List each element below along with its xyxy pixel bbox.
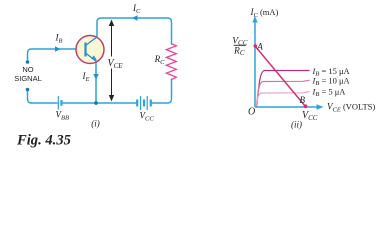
svg-text:IE: IE <box>82 71 90 83</box>
svg-text:(ii): (ii) <box>291 119 302 129</box>
svg-text:SIGNAL: SIGNAL <box>14 74 42 83</box>
svg-text:B: B <box>300 95 306 105</box>
svg-text:IB: IB <box>55 33 63 45</box>
svg-text:VCE: VCE <box>108 58 124 70</box>
svg-text:IC (mA): IC (mA) <box>250 7 279 19</box>
svg-text:A: A <box>256 41 263 51</box>
svg-text:VCC: VCC <box>302 110 318 122</box>
svg-text:NO: NO <box>22 65 33 74</box>
svg-text:O: O <box>248 107 255 118</box>
svg-text:VBB: VBB <box>56 110 69 122</box>
svg-text:(i): (i) <box>91 119 100 129</box>
svg-text:IB = 5 μA: IB = 5 μA <box>312 87 347 99</box>
svg-text:RC: RC <box>233 47 245 58</box>
svg-text:VCE (VOLTS): VCE (VOLTS) <box>327 102 375 114</box>
svg-text:IC: IC <box>132 3 141 15</box>
svg-text:RC: RC <box>154 54 166 66</box>
svg-text:Fig. 4.35: Fig. 4.35 <box>16 133 71 149</box>
svg-text:VCC: VCC <box>140 111 155 123</box>
